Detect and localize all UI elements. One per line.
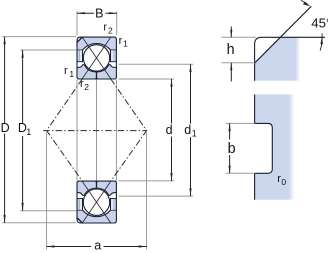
h arrow top [230, 30, 232, 37]
svg-text:r: r [119, 35, 123, 47]
D1 extension top [20, 49, 76, 51]
svg-text:1: 1 [69, 69, 74, 79]
svg-text:45°: 45° [311, 16, 328, 31]
angular dim arc upper segment [301, 0, 308, 4]
svg-text:2: 2 [84, 82, 89, 92]
svg-text:D: D [1, 121, 10, 135]
svg-text:h: h [227, 42, 235, 58]
groove detail left edge lower [254, 173, 256, 199]
right face extension vertical [115, 80, 117, 181]
svg-text:1: 1 [26, 127, 31, 137]
b arrow bottom [229, 166, 231, 174]
svg-text:0: 0 [281, 177, 286, 187]
groove notch outline [255, 123, 273, 173]
a dimension line [47, 246, 147, 248]
d extension top [119, 78, 174, 80]
side face extension verticals between sections [76, 80, 78, 181]
svg-text:r: r [103, 21, 107, 33]
D dimension line [4, 37, 6, 223]
b extension top [226, 122, 255, 124]
d dimension line [171, 79, 173, 181]
svg-text:d: d [184, 123, 191, 137]
svg-text:1: 1 [192, 128, 197, 138]
D arrow top [4, 37, 6, 45]
D1 extension bottom [20, 210, 76, 212]
groove notch white [254, 123, 272, 173]
d1 extension top [119, 63, 194, 65]
D1 arrow top [22, 50, 24, 58]
horizontal centre line (dash-dot) [43, 130, 146, 132]
d1 dimension line [190, 64, 192, 196]
center vertical between sections [96, 80, 98, 181]
svg-text:2: 2 [108, 26, 113, 36]
D1 dimension line [22, 50, 24, 211]
svg-text:b: b [228, 141, 236, 157]
contact diagonal left (dash-dot) [47, 79, 83, 181]
d extension bottom [119, 180, 174, 182]
chamfer detail blue body [255, 37, 300, 80]
d1 arrow bottom [189, 188, 191, 196]
B extension left [76, 11, 78, 35]
B dimension line [77, 12, 117, 14]
svg-text:a: a [94, 238, 101, 252]
d arrow bottom [170, 173, 172, 181]
b extension bottom [226, 172, 255, 174]
a extension right [146, 133, 148, 250]
D extension top [2, 36, 76, 38]
D extension bottom [2, 222, 76, 224]
a arrow left [47, 245, 55, 247]
svg-text:r: r [64, 65, 68, 77]
h arrow line bottom [230, 63, 232, 82]
h extension top [221, 36, 256, 38]
chamfer 45 deg line [255, 6, 311, 63]
B extension right [116, 11, 118, 35]
d arrow top [170, 79, 172, 87]
B arrow left [77, 12, 85, 14]
b arrow top [229, 123, 231, 131]
a extension left [46, 133, 48, 250]
b dimension line [229, 123, 231, 173]
top bearing section [77, 37, 116, 80]
h extension bottom [221, 62, 254, 64]
angular dim arrow at surface line [320, 37, 323, 44]
d1 extension bottom [119, 195, 194, 197]
B arrow right [109, 12, 117, 14]
svg-text:B: B [95, 7, 103, 21]
svg-text:d: d [166, 123, 173, 137]
d1 arrow top [189, 64, 191, 72]
bottom bearing section (mirrored) [77, 181, 116, 224]
h arrow bottom [230, 63, 232, 70]
D arrow bottom [4, 215, 6, 223]
groove detail left edge upper [254, 94, 256, 123]
angular dim arrow at chamfer line [303, 2, 310, 7]
D1 arrow bottom [22, 203, 24, 211]
angular dim arc lower segment [320, 33, 322, 50]
a arrow right [139, 245, 147, 247]
chamfer detail corner outline [255, 37, 325, 80]
svg-text:1: 1 [123, 39, 128, 49]
groove detail blue body [255, 94, 295, 199]
contact diagonal right (dash-dot) [111, 79, 147, 181]
h arrow line top [230, 27, 232, 38]
